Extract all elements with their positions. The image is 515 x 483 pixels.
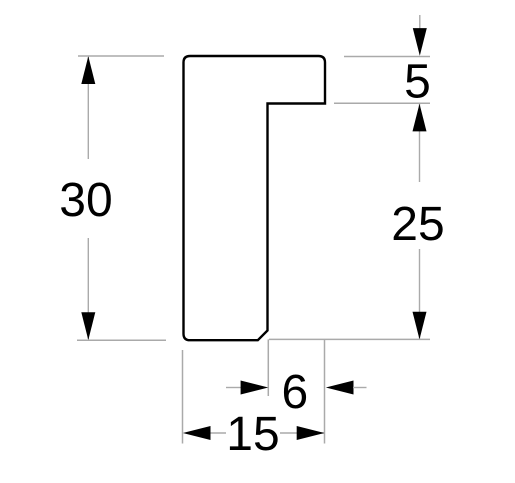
arrow 6 right pointing left [326,381,354,395]
arrow 15 right pointing right [297,426,325,440]
dimension line 5 upper tail [419,15,421,29]
arrow 25 up [413,104,427,132]
extension line vertical left of 15 [182,350,184,444]
svg-text:5: 5 [404,55,431,108]
arrow 6 left pointing right [241,381,269,395]
arrow 15 left pointing left [183,426,211,440]
dimension line 25 [419,104,421,339]
svg-text:25: 25 [391,198,444,251]
extension line vertical right of 6 and 15 [324,339,326,443]
svg-text:30: 30 [59,174,112,227]
svg-text:6: 6 [282,366,309,419]
arrow 30 up [81,56,95,84]
extension line bottom-right horizontal (25 bottom) [269,338,430,340]
extension line top-left (30 top) [78,55,164,57]
extension line vertical left of 6 [267,339,269,396]
arrow 25 down [413,312,427,340]
dimension 6 right tail [353,387,367,389]
extension line bottom-left (30 bottom) [77,339,166,341]
svg-text:15: 15 [226,408,279,461]
arrow 5 down [413,28,427,56]
label 30 background [57,159,115,238]
dimension line 15 [210,432,324,434]
extension line top-right (5 top) [344,56,430,58]
label 15 background [226,412,280,454]
arrow 30 down [81,312,95,340]
extension line mid-right (5 bottom / 25 top) [334,102,430,104]
profile outline [184,56,326,340]
dimension line 30 [87,57,89,339]
label 25 background [389,182,447,249]
dimension 6 left tail [226,387,241,389]
